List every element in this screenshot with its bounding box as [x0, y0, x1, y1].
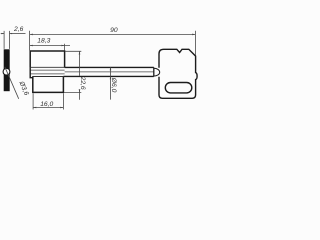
svg-text:18,3: 18,3	[37, 38, 50, 45]
svg-text:16,0: 16,0	[40, 101, 53, 108]
svg-text:Ø3,6: Ø3,6	[17, 80, 30, 97]
svg-text:90: 90	[110, 27, 118, 34]
svg-text:2,6: 2,6	[13, 26, 24, 33]
svg-text:Ø6,0: Ø6,0	[110, 77, 117, 93]
svg-text:22,6: 22,6	[79, 76, 86, 90]
